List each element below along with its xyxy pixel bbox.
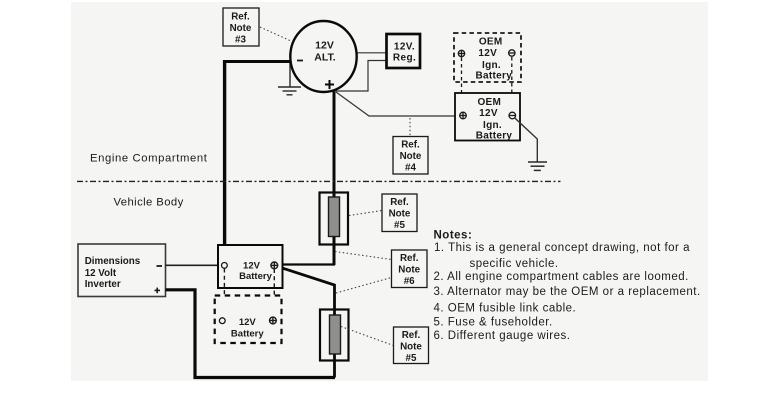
inverter minus terminal xyxy=(157,265,163,267)
dashed battery positive terminal xyxy=(458,50,464,56)
svg-text:4. OEM fusible link cable.: 4. OEM fusible link cable. xyxy=(434,303,577,315)
svg-text:Note: Note xyxy=(398,265,420,276)
battery B2 (12V second, dashed optional) xyxy=(215,296,282,344)
leader to note 4 (dotted) xyxy=(409,118,411,136)
svg-text:Notes:: Notes: xyxy=(434,230,473,242)
svg-text:#3: #3 xyxy=(235,35,246,46)
leader to note 5 bottom (dotted) xyxy=(341,327,394,346)
svg-text:Inverter: Inverter xyxy=(85,279,121,290)
battery B2 negative terminal xyxy=(219,318,225,324)
wire: inverter minus to battery negative xyxy=(166,264,223,266)
svg-text:Vehicle Body: Vehicle Body xyxy=(114,197,184,209)
svg-text:12 Volt: 12 Volt xyxy=(85,268,117,279)
svg-text:#4: #4 xyxy=(405,163,416,174)
svg-text:Ref.: Ref. xyxy=(390,197,409,208)
OEM ignition battery (installed) xyxy=(455,93,520,141)
svg-text:Ref.: Ref. xyxy=(402,330,421,341)
svg-text:6. Different gauge wires.: 6. Different gauge wires. xyxy=(434,330,571,342)
svg-text:2. All engine compartment cabl: 2. All engine compartment cables are loo… xyxy=(434,271,689,283)
svg-text:Note: Note xyxy=(400,151,422,162)
svg-text:#6: #6 xyxy=(404,276,415,287)
svg-text:Battery: Battery xyxy=(476,130,513,141)
ground (OEM battery) xyxy=(528,162,547,170)
inverter plus terminal xyxy=(155,288,161,294)
svg-text:Ign.: Ign. xyxy=(482,60,501,71)
wire: alternator + to 12V regulator (lower L-shape) xyxy=(334,61,387,92)
svg-text:3. Alternator may be the OEM: 3. Alternator may be the OEM or a replac… xyxy=(434,286,701,298)
svg-text:Ref.: Ref. xyxy=(401,140,420,151)
Ref Note #3 box xyxy=(223,8,259,46)
wire: alternator to 12V regulator (upper) xyxy=(356,52,387,54)
svg-text:Note: Note xyxy=(389,209,411,220)
svg-text:1. This is a general concept d: 1. This is a general concept drawing, no… xyxy=(434,242,690,254)
svg-text:12V: 12V xyxy=(243,260,261,271)
battery positive terminal xyxy=(460,112,467,119)
battery negative terminal xyxy=(509,112,516,119)
inverter xyxy=(78,244,166,297)
notes text xyxy=(434,230,701,343)
Ref Note #5 box (top) xyxy=(382,194,417,232)
battery B1 positive terminal xyxy=(271,262,278,269)
leader to note 6 upper (dotted) xyxy=(335,252,392,260)
wire: fuse 1 to battery positive xyxy=(277,263,335,265)
OEM ignition battery (dashed alternate position) xyxy=(454,33,521,82)
leader to note 6 lower (dotted) xyxy=(336,278,392,294)
svg-text:Ref.: Ref. xyxy=(231,12,250,23)
alternator plus terminal xyxy=(325,80,334,89)
svg-text:5. Fuse & fuseholder.: 5. Fuse & fuseholder. xyxy=(434,317,553,329)
svg-text:Battery: Battery xyxy=(239,271,272,282)
leader to note 5 top (dotted) xyxy=(349,211,382,216)
svg-text:#5: #5 xyxy=(406,353,417,364)
battery B1 negative terminal xyxy=(222,263,228,269)
Ref Note #4 box xyxy=(393,137,428,175)
svg-text:12V.: 12V. xyxy=(394,41,415,52)
svg-text:ALT.: ALT. xyxy=(314,52,335,64)
svg-text:Note: Note xyxy=(230,23,252,34)
12V regulator U2 xyxy=(387,34,421,68)
wire: alternator + down to fuse 1 xyxy=(333,89,336,265)
svg-text:Battery: Battery xyxy=(231,329,264,340)
dashed stems battery1 to battery2 xyxy=(223,269,225,318)
Ref Note #6 box xyxy=(392,250,428,288)
svg-text:Reg.: Reg. xyxy=(393,52,416,63)
svg-text:12V: 12V xyxy=(479,108,498,119)
svg-text:Dimensions: Dimensions xyxy=(85,256,141,267)
fuse F1 xyxy=(320,193,349,245)
compartment separator (dash-dot) xyxy=(77,180,561,182)
wire: battery positive diagonal to fuse 2 and bottom run xyxy=(277,266,335,377)
battery B1 (12V auxiliary) xyxy=(218,245,283,288)
wire: alternator minus to battery (horizontal) xyxy=(225,60,291,63)
wire: inverter plus to bottom run xyxy=(166,290,336,378)
wire: alternator + to OEM battery positive (diagonal + horizontal) xyxy=(336,92,460,116)
svg-text:OEM: OEM xyxy=(477,97,501,108)
svg-text:OEM: OEM xyxy=(479,37,503,48)
svg-text:Ign.: Ign. xyxy=(483,120,502,131)
Ref Note #5 box (bottom) xyxy=(394,327,429,364)
dashed battery negative terminal xyxy=(509,50,515,56)
svg-text:Engine Compartment: Engine Compartment xyxy=(90,153,208,165)
svg-text:12V: 12V xyxy=(478,48,497,59)
alternator U1 xyxy=(290,21,356,92)
wire: alternator minus down left side to 12V battery top (vertical) xyxy=(223,60,226,246)
svg-text:Note: Note xyxy=(400,342,422,353)
svg-text:specific vehicle.: specific vehicle. xyxy=(470,258,559,270)
svg-text:12V: 12V xyxy=(239,317,257,328)
alternator label xyxy=(314,40,335,64)
leader to note 3 (dotted) xyxy=(260,27,291,41)
svg-text:Battery: Battery xyxy=(476,70,513,81)
svg-text:Ref.: Ref. xyxy=(400,253,419,264)
fuse F2 xyxy=(320,310,349,361)
svg-text:12V: 12V xyxy=(315,40,334,52)
dashed connector right terminal column xyxy=(511,57,513,112)
wire: OEM battery negative to ground xyxy=(515,118,538,162)
ground (alternator) xyxy=(278,62,301,95)
alternator minus terminal xyxy=(297,60,303,62)
battery B2 positive terminal xyxy=(270,317,277,324)
svg-text:#5: #5 xyxy=(394,220,405,231)
dashed connector left terminal column xyxy=(461,58,463,113)
